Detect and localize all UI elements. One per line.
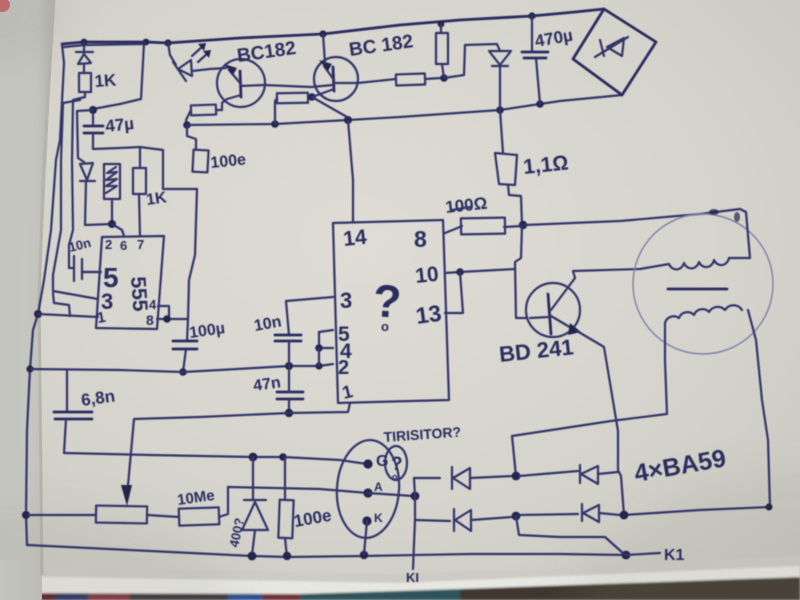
- svg-text:1K: 1K: [94, 70, 118, 91]
- IC U1 555 body: [96, 236, 164, 329]
- capacitor C3 470u: [522, 51, 548, 54]
- table surface below paper: [0, 556, 800, 600]
- svg-text:6: 6: [120, 238, 127, 253]
- node 100ohm2 top: [279, 453, 287, 461]
- thyristor TH1 outline: [334, 438, 403, 540]
- node pin8: [163, 315, 171, 323]
- node 1.1ohm bottom: [519, 221, 527, 229]
- wire K1 stub: [626, 553, 660, 555]
- wire secondary right to row2 node: [624, 507, 770, 515]
- node rail y370: [26, 365, 33, 372]
- pin A of thyristor: [363, 488, 372, 497]
- smudge at transformer corner: [709, 209, 719, 215]
- node transformer right corner: [766, 504, 773, 511]
- wire top supply rail: [62, 9, 604, 44]
- wire C branch to diode D2: [77, 110, 93, 162]
- svg-text:2: 2: [338, 357, 349, 379]
- wire line D to pin 3: [53, 100, 98, 299]
- wire pin8: [445, 226, 462, 233]
- node row1 mid: [512, 472, 521, 481]
- node below 47n: [285, 409, 293, 417]
- wire row1 right: [519, 471, 578, 476]
- transformer secondary coil: [665, 305, 742, 323]
- svg-text:1K: 1K: [145, 189, 168, 209]
- node top-left junction: [81, 39, 88, 46]
- node top junction T2 collector: [319, 30, 326, 37]
- wire bottom rail: [27, 545, 626, 557]
- svg-text:o: o: [392, 472, 398, 482]
- svg-text:13: 13: [414, 300, 443, 329]
- node top junction C470: [528, 12, 535, 19]
- transistor Q1 BC182: [217, 59, 265, 107]
- wire pin3 step: [53, 293, 70, 316]
- wire pin13 loop: [445, 272, 463, 313]
- diode D2: [80, 163, 93, 180]
- wire R1 bottom to line B: [69, 92, 85, 268]
- svg-text:7: 7: [137, 237, 144, 252]
- diode D8: [581, 504, 583, 521]
- wire y415 to pot arrow: [128, 413, 289, 485]
- pink spot top-left: [0, 0, 10, 12]
- svg-text:K1: K1: [664, 547, 685, 564]
- wire row2 right: [520, 514, 578, 515]
- node R3 left: [183, 121, 191, 129]
- node y370 junction pin4: [315, 362, 322, 369]
- node mid rail pin14: [344, 116, 352, 124]
- wire left rail A: [26, 44, 64, 545]
- wire R4 node diagonal to mid rail: [312, 97, 347, 117]
- wire node down to Q3 base: [515, 225, 527, 318]
- wire Q3 emitter down: [577, 331, 624, 515]
- bridge rectifier B1: [573, 9, 656, 95]
- pot wiper arrow: [121, 485, 132, 506]
- node rail thyristor K: [360, 551, 368, 559]
- svg-text:8: 8: [414, 226, 427, 252]
- wire 555 pin1 from rail: [38, 314, 98, 317]
- wire node right to transformer top: [525, 209, 740, 225]
- svg-text:14: 14: [342, 226, 368, 251]
- transformer primary coil: [669, 258, 729, 269]
- transistor Q3 BD241: [526, 283, 580, 337]
- node R5 R6 junction: [440, 74, 448, 82]
- pin G of thyristor: [363, 459, 372, 468]
- node top junction 2: [143, 39, 150, 46]
- svg-text:47µ: 47µ: [104, 114, 135, 136]
- node R4 right: [308, 93, 316, 101]
- node pin4 link: [315, 344, 323, 352]
- resistor R11 100ohm: [278, 500, 293, 538]
- svg-text:1,1Ω: 1,1Ω: [522, 151, 569, 179]
- wire 555 pin5: [82, 271, 101, 273]
- wire secondary right lead: [748, 310, 770, 507]
- capacitor C1 47u: [84, 125, 103, 128]
- wire long horizontal y370 pin2: [30, 364, 333, 372]
- wire node to 555 top: [112, 224, 124, 236]
- wire 47u bottom: [93, 133, 197, 189]
- wire vertical to K1 bottom: [413, 478, 415, 569]
- wire diode row2 left: [415, 520, 450, 521]
- pin K of thyristor: [362, 516, 371, 525]
- node 100u bottom: [179, 368, 187, 376]
- wire top doubled stroke: [64, 44, 146, 47]
- svg-text:10: 10: [414, 263, 440, 288]
- left second sheet: [0, 0, 54, 600]
- zener D9: [252, 457, 254, 500]
- capacitor C6 6.8n: [66, 371, 68, 412]
- node row2 right: [620, 511, 629, 520]
- wire diode row1 left: [414, 477, 440, 479]
- resistor R2 1K: [133, 168, 146, 194]
- wire jog to D3: [444, 44, 500, 78]
- node zener top: [249, 453, 258, 462]
- svg-text:K: K: [374, 511, 383, 525]
- wire y455 to thyristor G: [64, 453, 368, 464]
- wire R2 bottom to pin7: [139, 194, 140, 236]
- node pin10: [456, 268, 464, 276]
- svg-text:2: 2: [105, 237, 112, 252]
- wire secondary left lead: [512, 323, 667, 476]
- svg-text:3: 3: [340, 288, 352, 313]
- node top junction 3: [164, 39, 171, 46]
- wire branch to R2 top: [139, 147, 141, 168]
- wire pin1 of U2: [289, 403, 350, 413]
- wire pin10: [445, 269, 515, 273]
- node mid rail R4: [271, 120, 279, 128]
- diode D3: [489, 51, 511, 65]
- resistor R5: [396, 73, 425, 85]
- wire vertical E 100ohm bottom to 100u: [187, 189, 197, 341]
- wire Q3 collector to transformer primary: [573, 264, 669, 278]
- wire 555 pin4 to pin8: [158, 306, 169, 318]
- resistor R1 1K: [79, 73, 91, 92]
- diode D6: [579, 465, 581, 483]
- svg-text:A: A: [374, 480, 383, 494]
- potentiometer P1: [96, 506, 147, 524]
- transformer T1 circle: [633, 214, 773, 354]
- svg-text:G: G: [376, 453, 388, 470]
- resistor R8 100ohm: [461, 218, 505, 235]
- node rail 100ohm2: [283, 552, 291, 560]
- resistor R4: [277, 93, 308, 104]
- capacitor C5 47n: [277, 391, 303, 394]
- diode D1 top-left: [83, 42, 85, 52]
- wire pin14 up to mid rail: [348, 120, 353, 222]
- capacitor 10n left: [73, 256, 75, 281]
- node mid rail D3: [496, 106, 504, 114]
- wire 47u top to rail: [93, 43, 144, 109]
- node y370 junction 47n: [285, 362, 293, 370]
- wire R8 right to node: [504, 226, 522, 227]
- resistor Rx crossed: [104, 164, 120, 199]
- thyristor query bubble: [385, 446, 407, 480]
- node mid rail C470: [536, 100, 544, 108]
- paper bottom edge highlight band: [0, 565, 800, 594]
- capacitor C2 100u: [173, 340, 197, 343]
- wire node down to 100ohm v: [187, 125, 196, 150]
- node top junction R6: [438, 21, 445, 28]
- transformer core: [668, 288, 727, 291]
- diode D7: [453, 509, 455, 531]
- svg-text:o: o: [381, 319, 389, 334]
- node row2 mid: [512, 512, 521, 521]
- resistor R6 vertical: [436, 33, 448, 64]
- node rail zener: [248, 552, 257, 561]
- node below Rx: [108, 220, 116, 228]
- transformer frame top right: [729, 209, 750, 258]
- wire row2 mid link to rail: [516, 516, 624, 554]
- photodiode D4 with arrows: [168, 43, 176, 65]
- svg-text:KI: KI: [406, 570, 419, 585]
- wire pin5 pin4 bridge: [319, 330, 333, 348]
- transistor Q2 BC182: [314, 57, 358, 101]
- resistor R10 10M: [179, 507, 220, 525]
- svg-text:555: 555: [126, 276, 151, 313]
- svg-text:8: 8: [146, 312, 154, 328]
- capacitor C4 10n: [286, 297, 333, 335]
- IC U2 14-pin body: [333, 220, 449, 403]
- wire A to diode node: [368, 493, 413, 496]
- diode D5: [451, 467, 453, 489]
- wire to thyristor A: [228, 487, 368, 493]
- node rail pot: [22, 511, 30, 519]
- node diode rows left: [411, 492, 420, 501]
- wire mid rail y124: [187, 95, 622, 125]
- resistor R3: [191, 105, 216, 116]
- wire K to rail: [364, 521, 367, 554]
- node rail pin1: [34, 310, 42, 318]
- resistor R7 100ohm vertical: [192, 150, 208, 173]
- resistor R9 1.1ohm: [500, 110, 503, 153]
- node rail K1: [622, 551, 631, 560]
- node 47u top: [89, 106, 97, 114]
